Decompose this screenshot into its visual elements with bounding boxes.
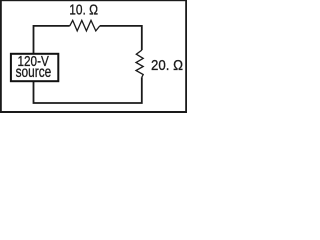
svg-text:10. Ω: 10. Ω	[69, 2, 98, 18]
wire: left vertical (source top) and top-left horizontal segment	[34, 26, 70, 54]
voltage source box (120-V source)	[11, 54, 58, 81]
resistor R1 (10 ohm, horizontal zigzag)	[70, 20, 100, 31]
svg-text:source: source	[16, 64, 52, 81]
svg-text:20. Ω: 20. Ω	[151, 58, 183, 74]
wire: top-right horizontal segment and right vertical upper segment	[100, 26, 142, 50]
resistor R2 (20 ohm, vertical zigzag)	[136, 50, 143, 77]
wire: right vertical lower, bottom horizontal, left vertical lower (source bottom)	[34, 77, 142, 103]
